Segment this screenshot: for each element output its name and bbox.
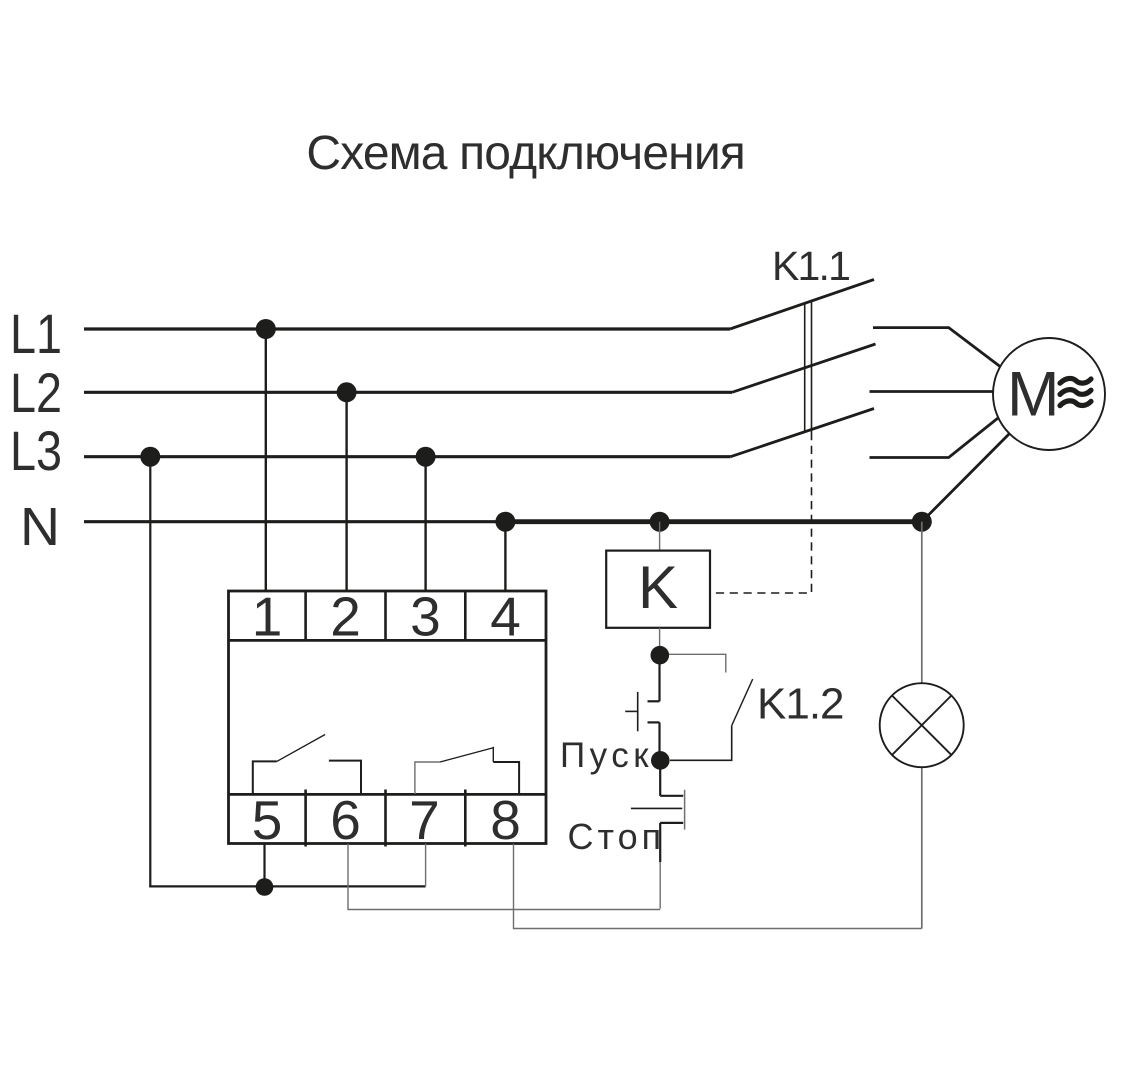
svg-text:K: K: [638, 554, 678, 621]
coil K wire to node: [659, 628, 661, 655]
junction dot L1: [256, 319, 276, 339]
stop button bridge bar: [684, 790, 686, 830]
coil K box: [606, 551, 710, 628]
wire terminal 5 drop: [263, 844, 265, 887]
svg-text:Пуск: Пуск: [560, 736, 653, 775]
relay contact 5-6 fixed side: [329, 761, 361, 794]
stop button Стоп upper terminal: [660, 795, 683, 797]
relay contact 7-8 stop tick: [492, 747, 494, 762]
svg-text:L3: L3: [10, 419, 62, 482]
wire node to K1.2 top: [669, 654, 726, 672]
svg-text:L2: L2: [10, 361, 62, 424]
svg-text:1: 1: [252, 586, 283, 648]
wire N bus: [84, 520, 507, 523]
top terminal strip bottom line: [229, 639, 547, 642]
bottom strip divider 3: [464, 790, 467, 847]
relay contact 5-6 riser left: [253, 761, 277, 794]
svg-text:K1.2: K1.2: [757, 680, 844, 729]
wire L3 to terminal 3: [424, 457, 426, 591]
svg-text:7: 7: [409, 789, 440, 851]
dashed link to coil K: [711, 432, 812, 593]
wire L1 to terminal 1: [265, 329, 267, 591]
svg-text:2: 2: [330, 586, 361, 648]
svg-text:L1: L1: [10, 302, 62, 365]
wire fixed contact L2 to motor: [870, 390, 1001, 393]
wire N to terminal 4: [504, 522, 506, 591]
junction dot N coil: [650, 512, 670, 532]
bottom strip divider 1: [304, 790, 307, 847]
stop button Стоп lower terminal: [660, 822, 683, 824]
contactor K1.1 blade L2: [732, 344, 876, 392]
start button actuator bar: [637, 692, 639, 731]
svg-text:M: M: [1007, 360, 1059, 430]
top strip divider 1: [304, 591, 307, 640]
svg-text:Стоп: Стоп: [568, 816, 666, 857]
wire fixed contact L3 to motor: [870, 410, 1009, 458]
junction dot L2: [337, 382, 357, 402]
svg-text:6: 6: [330, 789, 361, 851]
wire motor to N junction: [922, 423, 1020, 522]
relay contact 5-6 blade: [277, 735, 325, 762]
start button Пуск upper contact: [648, 700, 660, 702]
junction dot start: [651, 751, 670, 770]
wire L1 bus: [84, 327, 730, 330]
top strip divider 2: [384, 591, 387, 640]
wire N to lamp: [921, 522, 923, 684]
coil K wire from N: [659, 522, 661, 551]
svg-text:3: 3: [410, 586, 441, 648]
svg-text:Схема подключения: Схема подключения: [306, 127, 745, 180]
lamp HL circle: [880, 683, 964, 767]
motor M1 circle: [993, 338, 1105, 450]
wire node to stop button: [659, 760, 661, 795]
stop button actuator stem: [631, 807, 682, 809]
bottom strip divider 2: [384, 790, 387, 847]
relay contact 7-8 fixed side: [493, 762, 519, 794]
wire lamp to bottom: [921, 767, 923, 928]
contactor K1.1 mechanical link: [804, 304, 806, 433]
junction dot L3 right: [416, 447, 436, 467]
start button Пуск lower contact: [648, 721, 660, 723]
auxiliary contact K1.2 blade: [732, 679, 753, 726]
contactor K1.1 blade L1: [730, 280, 874, 330]
auxiliary contact K1.2 lower lead: [670, 726, 732, 761]
start button actuator stem: [625, 710, 638, 712]
junction dot below coil: [651, 646, 670, 665]
bottom terminal strip top line: [229, 793, 547, 796]
wire terminal 6 to stop button: [348, 844, 660, 910]
wire L3 drop to bottom: [149, 457, 151, 887]
svg-text:N: N: [20, 497, 60, 557]
svg-text:K1.1: K1.1: [772, 243, 849, 289]
lamp cross: [892, 696, 951, 755]
wire terminal 8 to lamp: [514, 844, 922, 929]
contactor K1.1 blade L3: [731, 409, 874, 457]
motor wave symbol: [1060, 378, 1091, 405]
junction dot N terminal4: [495, 512, 515, 532]
junction dot bottom: [256, 878, 274, 896]
wire bottom bus to terminal 7: [149, 885, 425, 887]
svg-text:8: 8: [490, 789, 521, 851]
wire L3 bus: [84, 455, 731, 458]
wire L2 bus: [84, 391, 732, 394]
junction dot L3 left: [140, 447, 160, 467]
wire node to start button: [658, 655, 660, 701]
relay contact 7-8 riser left: [415, 762, 440, 794]
relay device box: [229, 591, 547, 844]
wire lower contact to node: [658, 722, 660, 760]
relay contact 7-8 blade: [440, 748, 493, 762]
wire fixed contact L1 to motor: [873, 328, 1010, 374]
wire stop button down: [659, 823, 661, 862]
svg-text:4: 4: [490, 586, 521, 648]
top strip divider 3: [464, 591, 467, 640]
wire terminal 7 drop: [425, 844, 427, 887]
svg-text:5: 5: [252, 789, 283, 851]
wire L2 to terminal 2: [345, 392, 347, 591]
junction dot N lamp: [912, 512, 932, 532]
